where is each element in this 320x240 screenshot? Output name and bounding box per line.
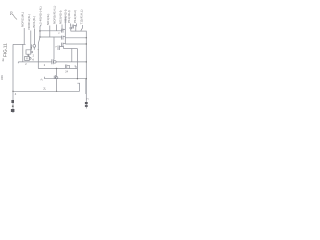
terminal blob right T2: [85, 105, 88, 107]
transistor T3: [58, 46, 64, 51]
wire cluster left drop: [22, 44, 24, 61]
svg-text:P: P: [56, 47, 58, 49]
wire horizontal H68: [38, 68, 77, 70]
svg-text:2: 2: [25, 63, 27, 66]
wire T7 drain to bus: [56, 79, 58, 92]
svg-text:P12(41H): P12(41H): [73, 10, 77, 23]
svg-text:2: 2: [87, 98, 90, 100]
leader 2-40: [40, 25, 41, 38]
wire T3 drain to rail: [64, 48, 78, 50]
node junction T7 bus: [56, 91, 57, 92]
gate G2 inner mark: [26, 57, 27, 59]
wire bottom horizontal bus: [13, 90, 80, 92]
node dot 2-40 H2: [39, 36, 41, 38]
wire rail x86.3: [85, 31, 87, 109]
source blob S2: [12, 106, 14, 108]
node junction rail x86.3 H79: [86, 78, 87, 79]
svg-text:24: 24: [44, 87, 47, 90]
wire mid horizontal H62 right: [56, 61, 86, 63]
transistor T7 bars: [54, 75, 55, 79]
wire bubble to gates: [32, 44, 35, 49]
wire horizontal H79: [45, 78, 87, 80]
wire mid horizontal H62 left: [18, 62, 50, 63]
wire H79 left tick: [44, 77, 46, 79]
source blob S3: [11, 109, 15, 112]
gate G2 bubble: [29, 58, 31, 60]
svg-text:24: 24: [65, 71, 68, 74]
wire mid horizontal H3 right: [65, 43, 86, 45]
inverter mark between gates: [27, 54, 29, 56]
wire mid horizontal H2 right: [65, 37, 86, 39]
node junction rail x77.4 H79: [77, 78, 78, 79]
wire leader NOR2H: [56, 25, 58, 31]
wire mid horizontal H2 left: [40, 36, 62, 38]
node junction H68: [56, 68, 57, 69]
svg-text:2-: 2-: [40, 78, 44, 80]
transistor T4 bars: [50, 59, 53, 64]
wire mid horizontal H1 right: [71, 30, 87, 32]
node dot 2-40 H1: [39, 30, 41, 32]
wire dot to T7: [56, 69, 58, 77]
transistor T6: [66, 65, 70, 69]
wire vertical x38.3: [38, 37, 40, 69]
gate G1 bubble: [31, 51, 33, 53]
transistor M1 bars: [62, 29, 63, 33]
wire M2 link: [63, 36, 65, 38]
node dot gate wire: [31, 47, 32, 48]
wire leader INV1: [33, 29, 35, 45]
transistor M3 bars: [62, 43, 63, 47]
svg-text:ND1(4L): ND1(4L): [46, 14, 50, 25]
node junction rail x86.3 H3: [86, 43, 87, 44]
terminal blob right T1: [85, 102, 88, 104]
wire right step riser: [77, 83, 79, 91]
svg-text:FIG.11: FIG.11: [3, 43, 8, 57]
wire leader ND1: [49, 26, 51, 38]
wire G1 to G2 link: [28, 54, 30, 56]
node junction rail x86.3 H2: [86, 37, 87, 38]
wire top-left horizontal: [13, 43, 26, 45]
svg-text:ND2(41H): ND2(41H): [58, 10, 62, 24]
bubble T7: [56, 77, 58, 79]
bubble T4: [54, 61, 57, 64]
svg-text:2-40(41H,4L): 2-40(41H,4L): [39, 6, 43, 24]
wire leader P1: [69, 24, 71, 27]
node junction left rail bottom: [12, 91, 13, 92]
wire mid horizontal H1 left: [40, 30, 62, 32]
transistor M2 bars: [62, 36, 63, 40]
svg-text:4: 4: [15, 92, 17, 96]
wire leader NOR12: [30, 31, 32, 50]
wire leader NOR11: [23, 28, 25, 44]
gate G1 box: [26, 50, 31, 54]
svg-text:P: P: [58, 33, 60, 35]
wire leader T1: [81, 25, 83, 31]
node junction H62 rail: [86, 61, 87, 62]
node dot G2 top: [28, 56, 29, 57]
svg-text:T11(41H,L): T11(41H,L): [79, 10, 83, 25]
wire left rail vertical: [12, 44, 14, 113]
svg-text:2e: 2e: [1, 58, 5, 62]
source blob S1: [11, 100, 14, 103]
wire leader ND2: [61, 25, 63, 31]
arrowhead on x38.3: [38, 49, 39, 51]
wire tap down to H62: [71, 49, 73, 62]
svg-text:P11(41H): P11(41H): [67, 10, 71, 23]
svg-text:VIN: VIN: [0, 75, 4, 80]
svg-text:NOR12(4L): NOR12(4L): [27, 14, 31, 29]
wire rail VG vertical: [64, 17, 66, 45]
transistor T1b: [71, 25, 76, 32]
wire rail x86.3 lower double: [85, 79, 87, 94]
wire T4 gate feed: [53, 37, 55, 60]
transistor T5 gate tap: [75, 66, 77, 69]
leader arrow from 50: [13, 14, 18, 20]
svg-text:NOR2(41H,L): NOR2(41H,L): [53, 6, 57, 24]
wire rail x77.4: [76, 49, 78, 79]
svg-text:2: 2: [44, 64, 46, 67]
svg-text:NOR11(4L): NOR11(4L): [20, 12, 24, 27]
transistor T1b bubble: [70, 27, 72, 29]
inverter bubble N1: [33, 45, 36, 48]
svg-text:2: 2: [33, 55, 35, 58]
gate G2 box: [25, 56, 30, 60]
svg-text:INV1(4L): INV1(4L): [32, 16, 36, 28]
svg-text:2-: 2-: [31, 58, 35, 60]
wire M3 link: [63, 43, 65, 45]
wire leader P12: [75, 24, 77, 27]
wire M1 link: [63, 29, 65, 31]
